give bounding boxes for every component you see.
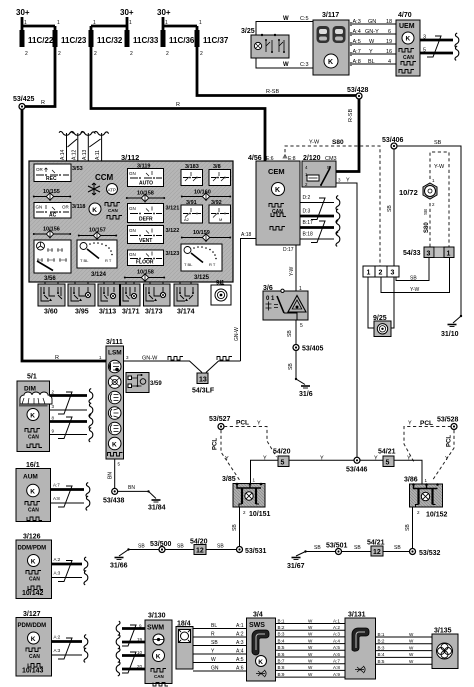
wire SB to ground 31/6 xyxy=(295,350,297,379)
svg-text:K: K xyxy=(328,59,333,66)
svg-text:W: W xyxy=(409,659,414,664)
svg-text:6: 6 xyxy=(388,29,391,35)
svg-text:A:1: A:1 xyxy=(236,623,244,629)
fuse 11C/33 xyxy=(125,30,130,47)
wire GN 18/4 to SWS A:6 xyxy=(193,670,247,672)
svg-text:A2: A2 xyxy=(184,217,190,222)
svg-text:B:18: B:18 xyxy=(303,232,314,238)
wire R-SB from 11C/37 to node 53/428 xyxy=(197,47,359,96)
wire W 18/4 to SWS A:5 xyxy=(193,662,247,664)
wire R from 53/425 down to LSM pin 1 xyxy=(22,107,106,362)
svg-text:18: 18 xyxy=(386,19,392,25)
wire SB 54/21 to node 53/532 xyxy=(383,551,410,553)
svg-text:3/131: 3/131 xyxy=(348,612,366,619)
svg-text:W: W xyxy=(211,657,216,663)
svg-text:54/20: 54/20 xyxy=(273,449,291,456)
svg-text:K: K xyxy=(258,659,263,666)
connector 1-2-3 xyxy=(363,266,399,277)
dashed PCL 53/528 down branch xyxy=(432,430,454,481)
svg-text:GN: GN xyxy=(129,171,136,176)
wire SB 18/4 to SWS A:3 xyxy=(193,645,247,647)
wire R-SB from 53/428 down to 2/120 xyxy=(336,96,359,172)
svg-text:5/1: 5/1 xyxy=(27,374,37,381)
svg-text:M: M xyxy=(219,217,222,222)
svg-text:GN-W: GN-W xyxy=(142,356,158,362)
svg-text:3/124: 3/124 xyxy=(91,272,107,278)
svg-text:3/127: 3/127 xyxy=(23,611,41,618)
wire SB 31/66 to 53/500 xyxy=(129,549,160,551)
svg-text:2: 2 xyxy=(200,51,203,57)
fuse 11C/36 xyxy=(161,30,166,47)
wire A:5 W to UEM 19 xyxy=(349,43,396,45)
svg-text:Y: Y xyxy=(225,456,229,462)
svg-text:5: 5 xyxy=(300,323,303,329)
svg-text:VENT: VENT xyxy=(139,238,152,244)
svg-text:R-SB: R-SB xyxy=(348,109,354,122)
svg-text:B:4: B:4 xyxy=(378,652,385,657)
svg-text:T BL: T BL xyxy=(80,258,89,263)
svg-text:SB: SB xyxy=(177,544,184,550)
svg-text:A:3: A:3 xyxy=(353,19,361,25)
svg-text:Y-W: Y-W xyxy=(410,287,420,293)
svg-text:B:4: B:4 xyxy=(278,638,285,643)
wire SB 54/20 to node 53/531 xyxy=(206,549,236,551)
svg-text:10/151: 10/151 xyxy=(249,511,271,518)
fuse 11C/32 xyxy=(89,30,94,47)
svg-text:SB: SB xyxy=(287,330,293,337)
svg-text:11C/22: 11C/22 xyxy=(28,36,54,45)
svg-text:C:3: C:3 xyxy=(300,62,309,68)
svg-text:53/527: 53/527 xyxy=(209,416,231,423)
svg-text:SB: SB xyxy=(434,140,442,146)
svg-text:4: 4 xyxy=(388,59,391,65)
svg-text:W: W xyxy=(283,62,289,68)
svg-text:3/113: 3/113 xyxy=(99,309,116,316)
CCM snowflake xyxy=(88,183,100,195)
dashed S80 from 10/72 pin2 to 54/33 pin3 xyxy=(429,203,431,247)
svg-text:SB: SB xyxy=(217,544,224,550)
svg-text:10/142: 10/142 xyxy=(22,590,44,597)
dashed PCL 53/527 down branch xyxy=(221,430,240,480)
svg-text:3/130: 3/130 xyxy=(148,613,166,620)
svg-text:31/67: 31/67 xyxy=(287,563,305,570)
svg-text:12: 12 xyxy=(373,549,381,556)
svg-text:A:13: A:13 xyxy=(82,149,88,160)
svg-text:CAN: CAN xyxy=(154,674,164,679)
svg-text:3/123: 3/123 xyxy=(166,251,180,257)
svg-text:16: 16 xyxy=(386,49,392,55)
svg-text:Y: Y xyxy=(257,421,261,427)
wire SB 53/501 to 54/21 xyxy=(342,551,372,553)
svg-text:R: R xyxy=(55,355,59,361)
svg-text:Y: Y xyxy=(263,456,267,462)
svg-text:UEM: UEM xyxy=(399,23,415,30)
svg-text:3/173: 3/173 xyxy=(145,309,163,316)
svg-text:5: 5 xyxy=(423,48,426,54)
svg-text:1: 1 xyxy=(93,20,96,26)
svg-text:B:1: B:1 xyxy=(278,618,285,623)
svg-text:30+: 30+ xyxy=(16,8,30,17)
svg-text:12: 12 xyxy=(196,548,204,555)
svg-text:3/171: 3/171 xyxy=(122,309,140,316)
fuse 11C/37 xyxy=(195,30,200,47)
svg-text:31/66: 31/66 xyxy=(110,563,128,570)
svg-text:K: K xyxy=(30,488,35,495)
svg-text:Y: Y xyxy=(445,456,449,462)
svg-text:A:7: A:7 xyxy=(353,49,361,55)
svg-text:5: 5 xyxy=(386,460,390,467)
svg-text:ATP: ATP xyxy=(108,188,116,193)
node 53/531 xyxy=(237,547,243,553)
svg-text:3/126: 3/126 xyxy=(23,534,41,541)
svg-text:4/70: 4/70 xyxy=(398,12,412,19)
svg-text:BN: BN xyxy=(108,472,114,479)
svg-text:A:4: A:4 xyxy=(236,649,244,655)
wire SB 53/406 down to connector pin 3 xyxy=(393,149,395,266)
svg-text:A:4: A:4 xyxy=(353,29,361,35)
svg-text:R: R xyxy=(176,102,180,108)
svg-text:GN-W: GN-W xyxy=(234,327,240,341)
wire BN to ground 31/84 xyxy=(118,490,149,492)
svg-text:A:14: A:14 xyxy=(60,149,66,160)
switch 3/53 REC xyxy=(34,164,71,182)
wire W 3/25 to 3/117 C:5 xyxy=(256,22,313,36)
svg-text:SB: SB xyxy=(211,640,218,646)
svg-text:1: 1 xyxy=(57,20,60,26)
svg-text:K: K xyxy=(406,36,411,43)
svg-text:W: W xyxy=(308,665,313,670)
relay 3/174 xyxy=(174,284,198,306)
svg-text:B:2: B:2 xyxy=(378,639,385,644)
twisted pair mark SWM a xyxy=(122,625,136,646)
svg-text:BL: BL xyxy=(211,623,217,629)
svg-text:W: W xyxy=(369,39,375,45)
svg-text:A:8: A:8 xyxy=(333,665,340,670)
svg-text:53/500: 53/500 xyxy=(150,541,172,548)
svg-text:SB: SB xyxy=(423,209,428,215)
svg-text:OR: OR xyxy=(36,167,44,172)
dashed PCL 53/528 left branch xyxy=(404,427,451,463)
svg-text:A:3: A:3 xyxy=(333,632,340,637)
svg-text:S80: S80 xyxy=(424,222,430,233)
svg-text:SWS: SWS xyxy=(249,622,265,629)
svg-text:53/438: 53/438 xyxy=(103,498,125,505)
relay 3/173 xyxy=(144,284,171,306)
svg-text:W: W xyxy=(308,638,313,643)
twisted pair mark UEM xyxy=(427,36,441,57)
svg-text:1: 1 xyxy=(367,270,371,277)
svg-text:2: 2 xyxy=(379,270,383,277)
svg-text:GN-Y: GN-Y xyxy=(365,29,379,35)
svg-text:GN: GN xyxy=(36,205,43,210)
svg-text:Y: Y xyxy=(320,456,324,462)
relay 3/60 xyxy=(38,284,65,306)
svg-text:3/85: 3/85 xyxy=(222,476,236,483)
svg-text:AUTO: AUTO xyxy=(139,181,153,187)
svg-text:1: 1 xyxy=(199,20,202,26)
svg-text:SB: SB xyxy=(314,545,321,551)
svg-text:D:3: D:3 xyxy=(303,209,311,215)
ground 31/67 xyxy=(292,558,301,560)
svg-text:Y: Y xyxy=(369,49,373,55)
svg-text:30+: 30+ xyxy=(120,8,134,17)
svg-text:3/135: 3/135 xyxy=(434,628,452,635)
svg-text:AUM: AUM xyxy=(23,474,38,481)
svg-text:53/446: 53/446 xyxy=(346,467,368,474)
svg-text:R T: R T xyxy=(209,262,216,267)
svg-text:3/53: 3/53 xyxy=(72,166,83,172)
svg-text:FLOOR: FLOOR xyxy=(136,260,154,266)
svg-text:11C/32: 11C/32 xyxy=(97,36,123,45)
svg-text:B:6: B:6 xyxy=(278,652,285,657)
svg-text:3/118: 3/118 xyxy=(72,204,85,210)
node 53/501 xyxy=(336,549,342,555)
svg-text:3/59: 3/59 xyxy=(150,381,162,387)
svg-text:11C/23: 11C/23 xyxy=(61,36,87,45)
svg-text:54/33: 54/33 xyxy=(403,250,421,257)
twisted pair mark 3/126 xyxy=(58,561,72,582)
relay 3/171 xyxy=(121,284,141,306)
wire SB 3/6 pin5 to node 53/405 xyxy=(295,320,297,345)
svg-text:3/60: 3/60 xyxy=(44,309,58,316)
svg-text:A:2: A:2 xyxy=(54,635,61,640)
CCM K symbol xyxy=(89,203,101,215)
svg-text:GN: GN xyxy=(129,206,136,211)
node 53/532 xyxy=(410,549,416,555)
svg-text:W: W xyxy=(308,618,313,623)
wire A:4 GN-Y to UEM 6 xyxy=(349,33,396,35)
fan control 3/56 xyxy=(34,240,71,273)
svg-text:W: W xyxy=(308,652,313,657)
node 53/438 xyxy=(112,488,118,494)
svg-text:BN: BN xyxy=(128,485,135,491)
svg-text:A:5: A:5 xyxy=(353,39,361,45)
svg-text:A:3: A:3 xyxy=(54,571,61,576)
svg-text:GN: GN xyxy=(129,228,136,233)
svg-text:30+: 30+ xyxy=(157,8,171,17)
svg-text:3/4: 3/4 xyxy=(253,612,263,619)
wire Y 18/4 to SWS A:4 xyxy=(193,653,247,655)
relay 3/113 xyxy=(98,284,120,306)
svg-text:10/152: 10/152 xyxy=(426,512,448,519)
svg-text:11C/33: 11C/33 xyxy=(133,36,159,45)
CCM CAN symbol xyxy=(105,203,120,207)
wire connector3 to 9/25 xyxy=(391,277,394,328)
svg-text:B:5: B:5 xyxy=(278,645,285,650)
svg-text:A:3: A:3 xyxy=(54,648,61,653)
svg-text:2: 2 xyxy=(94,51,97,57)
svg-text:B:5: B:5 xyxy=(378,659,385,664)
svg-text:0 1: 0 1 xyxy=(266,296,275,302)
node 53/446 xyxy=(354,457,360,463)
twisted pair mark SWM b xyxy=(122,652,136,673)
wire A:7 Y to UEM 16 xyxy=(349,53,396,55)
wire BL 18/4 to SWS A:1 xyxy=(193,628,247,630)
temp dial 3/124 xyxy=(77,240,117,268)
svg-text:31/10: 31/10 xyxy=(441,331,459,338)
svg-text:A:9: A:9 xyxy=(333,672,340,677)
svg-text:A:3: A:3 xyxy=(236,640,244,646)
wire A:8 BL to UEM 4 xyxy=(349,63,396,65)
svg-text:OR: OR xyxy=(62,205,70,210)
svg-text:1: 1 xyxy=(165,20,168,26)
svg-text:3/86: 3/86 xyxy=(404,477,418,484)
wire SB 53/406 to ground 31/10 xyxy=(397,146,461,316)
SWS to 3/131 harness B1-B9 xyxy=(276,618,346,677)
wire SB 31/67 to 53/501 xyxy=(306,551,336,553)
switch 3/122 VENT xyxy=(128,226,164,245)
twisted pair mark 3/127 xyxy=(58,638,72,659)
wire connector1 to 9/25 xyxy=(368,277,374,328)
svg-text:CAN: CAN xyxy=(28,435,39,441)
svg-text:Y-W: Y-W xyxy=(309,140,320,146)
svg-text:W: W xyxy=(409,645,414,650)
svg-text:A:2: A:2 xyxy=(333,625,340,630)
svg-text:B:7: B:7 xyxy=(278,659,285,664)
svg-text:W: W xyxy=(283,16,289,22)
svg-text:11C/37: 11C/37 xyxy=(203,36,229,45)
wire UEM pin 3 xyxy=(420,39,453,42)
svg-text:Y: Y xyxy=(346,178,350,184)
svg-text:Y-W: Y-W xyxy=(434,164,445,170)
twisted pair mark DIM a xyxy=(58,392,72,414)
svg-text:W: W xyxy=(308,672,313,677)
ground 31/10 xyxy=(460,315,462,317)
svg-text:53/405: 53/405 xyxy=(302,346,324,353)
svg-text:W: W xyxy=(308,659,313,664)
svg-text:5: 5 xyxy=(281,460,285,467)
svg-text:T BL: T BL xyxy=(184,262,193,267)
svg-text:GN: GN xyxy=(129,252,136,257)
svg-text:CAN: CAN xyxy=(403,55,414,61)
svg-text:3: 3 xyxy=(427,251,431,258)
switch 3/118 AC xyxy=(34,203,71,219)
svg-text:A:2: A:2 xyxy=(54,557,61,562)
svg-text:DIM: DIM xyxy=(24,386,36,393)
dashed Y-W loop 10/72 pin1 to 54/33 pin1 xyxy=(430,152,449,247)
3/131 to 3/135 harness B1-B5 xyxy=(376,632,433,664)
wire R from 11C/23 to node 53/425 xyxy=(22,47,55,107)
svg-text:GN: GN xyxy=(368,19,376,25)
svg-text:10/72: 10/72 xyxy=(399,188,418,197)
svg-text:PDM/DDM: PDM/DDM xyxy=(18,623,47,629)
twisted pair mark AUM xyxy=(58,486,72,507)
svg-text:K: K xyxy=(156,653,161,660)
wire R from 11C/32 to CEM E:6 xyxy=(91,47,265,161)
svg-text:W: W xyxy=(409,652,414,657)
svg-text:R T: R T xyxy=(105,258,112,263)
svg-text:1: 1 xyxy=(24,20,27,26)
svg-text:SWM: SWM xyxy=(147,625,164,632)
svg-text:DDM/PDM: DDM/PDM xyxy=(18,546,47,552)
svg-text:2: 2 xyxy=(166,51,169,57)
svg-text:R-SB: R-SB xyxy=(266,89,279,95)
svg-text:B:2: B:2 xyxy=(278,625,285,630)
svg-text:AC: AC xyxy=(49,213,57,219)
svg-text:B:17: B:17 xyxy=(303,220,314,226)
svg-text:A:12: A:12 xyxy=(71,149,77,160)
svg-text:3/111: 3/111 xyxy=(106,339,123,346)
ground 31/66 xyxy=(115,558,124,560)
svg-text:Y: Y xyxy=(374,456,378,462)
twisted pair mark B xyxy=(311,221,325,243)
fuse 11C/22 xyxy=(20,30,25,47)
svg-text:CAN: CAN xyxy=(28,508,39,514)
svg-text:K: K xyxy=(31,558,36,565)
svg-text:W: W xyxy=(308,625,313,630)
svg-text:D:2: D:2 xyxy=(303,195,311,201)
svg-text:B:8: B:8 xyxy=(278,665,285,670)
wire Y row to relays xyxy=(251,460,423,484)
svg-text:31/6: 31/6 xyxy=(299,391,313,398)
svg-text:3: 3 xyxy=(423,35,426,41)
ground 31/84 xyxy=(147,490,149,492)
svg-text:W: W xyxy=(308,632,313,637)
ground 31/6 xyxy=(295,378,297,380)
svg-text:10/143: 10/143 xyxy=(22,668,44,675)
svg-text:SB: SB xyxy=(387,205,393,212)
wire Y 2/120 pin3 to node 53/446 xyxy=(336,183,357,457)
svg-text:SB: SB xyxy=(354,545,361,551)
svg-text:13: 13 xyxy=(199,377,207,384)
switch pack 3/59 xyxy=(126,373,149,393)
svg-text:B:1: B:1 xyxy=(378,632,385,637)
svg-text:53/528: 53/528 xyxy=(437,417,459,424)
svg-text:A:5: A:5 xyxy=(236,657,244,663)
svg-text:A:7: A:7 xyxy=(53,483,60,488)
wire R 18/4 to SWS A:2 xyxy=(193,636,247,638)
svg-text:1: 1 xyxy=(447,251,451,258)
svg-text:2: 2 xyxy=(130,51,133,57)
svg-text:K: K xyxy=(112,441,117,448)
svg-text:LSM: LSM xyxy=(108,350,122,357)
svg-text:PCL: PCL xyxy=(420,420,433,427)
svg-text:CAN: CAN xyxy=(29,577,40,583)
wire W 3/25 to 3/117 C:3 xyxy=(256,58,313,68)
dashed S80 run from CEM E:8 xyxy=(285,146,380,266)
svg-text:A:6: A:6 xyxy=(236,666,244,672)
svg-text:PCL: PCL xyxy=(236,420,249,427)
svg-text:REC: REC xyxy=(46,176,57,182)
svg-text:DEFR: DEFR xyxy=(139,217,153,223)
wire UEM pin 5 xyxy=(420,52,453,55)
svg-text:K: K xyxy=(275,187,280,194)
svg-text:Y: Y xyxy=(407,456,411,462)
wire Y-W connector2 to 54/33 pin1 xyxy=(381,258,450,293)
svg-text:K: K xyxy=(31,636,36,643)
svg-text:K: K xyxy=(92,207,97,214)
svg-text:R: R xyxy=(41,100,45,106)
svg-text:CAN: CAN xyxy=(108,208,118,213)
fuse 11C/23 xyxy=(53,30,58,47)
switch 3/121 DEFR xyxy=(128,204,164,223)
wire 30+ feeds xyxy=(21,17,24,26)
svg-text:B:3: B:3 xyxy=(278,632,285,637)
dashed PCL 53/527 right branch xyxy=(224,427,277,458)
svg-text:A:5: A:5 xyxy=(333,645,340,650)
svg-text:SB: SB xyxy=(232,524,238,531)
svg-text:A:8: A:8 xyxy=(353,59,361,65)
svg-text:B:3: B:3 xyxy=(378,645,385,650)
svg-text:A:1: A:1 xyxy=(333,618,340,623)
svg-text:B:9: B:9 xyxy=(278,672,285,677)
svg-text:GN: GN xyxy=(211,666,219,672)
node 53/405 xyxy=(293,345,299,351)
svg-text:3/121: 3/121 xyxy=(166,206,180,212)
svg-text:PCL: PCL xyxy=(213,438,219,450)
svg-text:2: 2 xyxy=(58,51,61,57)
svg-text:A:4: A:4 xyxy=(333,638,340,643)
